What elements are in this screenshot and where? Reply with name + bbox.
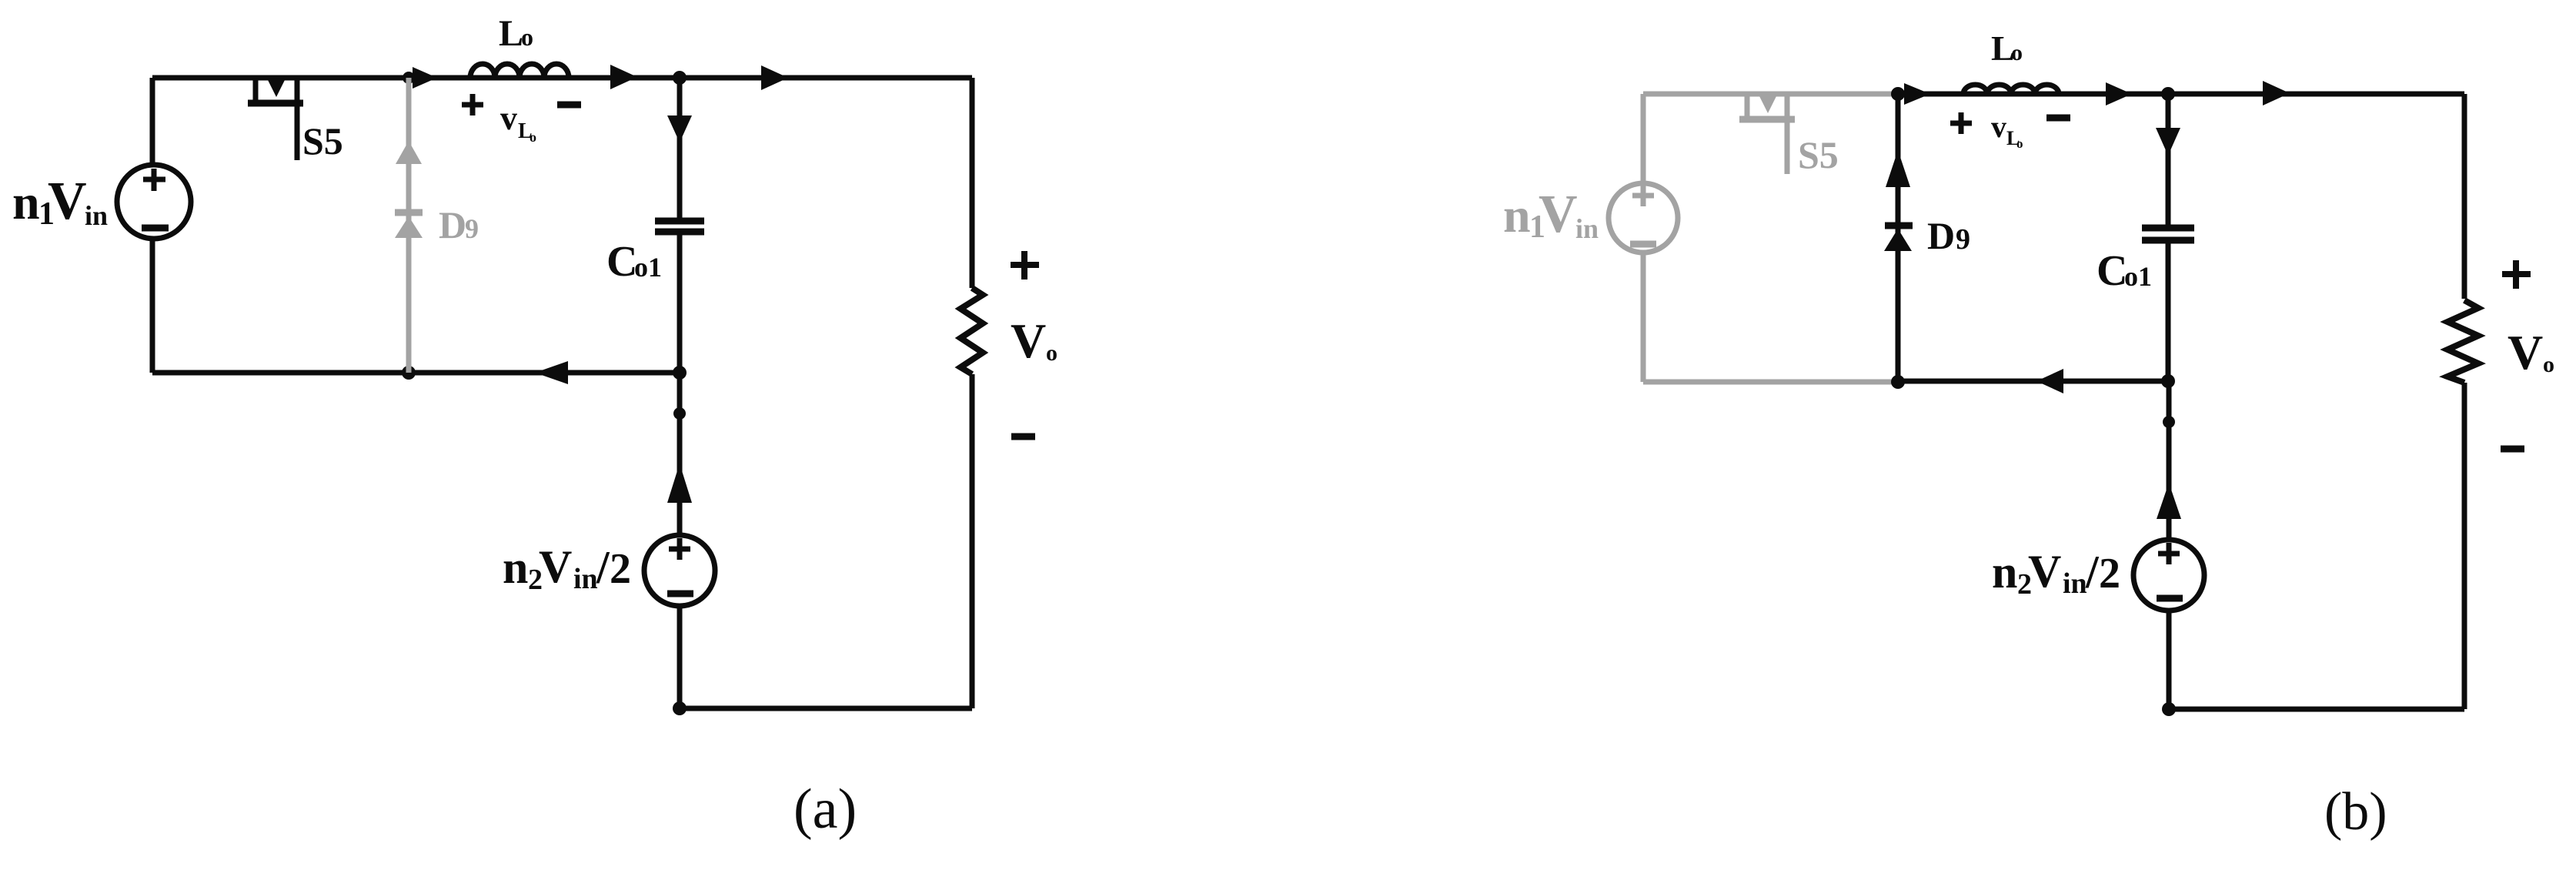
wire: bottom net black (b) bbox=[1898, 379, 2168, 384]
wire: bottom return net (a) bbox=[680, 706, 972, 711]
wire: capacitor branch upper (a) bbox=[677, 78, 683, 219]
transistor S5 arrow blob (a) bbox=[267, 79, 286, 97]
n2Vin/2 minus sign (a) bbox=[667, 591, 693, 597]
svg-text:V: V bbox=[1011, 313, 1046, 368]
inductor Lo coil (b) bbox=[1963, 85, 2059, 94]
svg-text:in: in bbox=[573, 563, 598, 595]
current arrow up through D9 (b) bbox=[1886, 150, 1910, 187]
label + of vLo (b) bbox=[1950, 112, 1972, 134]
svg-text:o1: o1 bbox=[634, 252, 662, 283]
label - of vLo (a) bbox=[557, 102, 581, 109]
current arrow left on bottom net (a) bbox=[535, 361, 568, 384]
n2Vin/2 plus sign (a) bbox=[669, 547, 690, 552]
current arrow right toward load (b) bbox=[2263, 81, 2290, 105]
svg-text:(b): (b) bbox=[2324, 782, 2387, 842]
labels (b) bbox=[1503, 28, 2554, 842]
current arrow down into capacitor branch (a) bbox=[667, 115, 692, 142]
svg-text:n: n bbox=[503, 542, 528, 593]
transistor S5 mosfet (a) bbox=[253, 78, 259, 103]
wire: right load branch upper lead (b) bbox=[2462, 94, 2467, 299]
capacitor Co1 plates (a) bbox=[655, 218, 704, 225]
junction dot bottom return (a) bbox=[673, 701, 687, 715]
current arrow right after inductor (a) bbox=[610, 65, 637, 89]
svg-text:n: n bbox=[1503, 188, 1531, 243]
label + of Vo (b) bbox=[2502, 260, 2531, 289]
svg-text:S5: S5 bbox=[1798, 133, 1839, 176]
wire: n2 source branch lower (a) bbox=[677, 605, 683, 708]
junction dot D9 bottom (a) bbox=[402, 366, 416, 380]
svg-text:o: o bbox=[530, 129, 536, 145]
wire: right load branch upper lead (a) bbox=[970, 78, 975, 288]
svg-text:o: o bbox=[2011, 40, 2023, 65]
current arrow right on top wire (b) bbox=[1904, 83, 1930, 105]
svg-text:/: / bbox=[596, 542, 610, 593]
svg-text:in: in bbox=[2063, 567, 2087, 600]
junction dot D9 top (b) bbox=[1891, 87, 1905, 101]
svg-text:o: o bbox=[1046, 340, 1057, 366]
svg-text:o: o bbox=[521, 23, 533, 51]
labels (a) bbox=[12, 13, 1057, 841]
junction dot below bottom net (b) bbox=[2163, 416, 2175, 428]
svg-text:V: V bbox=[539, 541, 572, 592]
n2Vin/2 minus sign (b) bbox=[2157, 595, 2183, 602]
junction dot at S5/D9 node (a) bbox=[403, 72, 415, 84]
n1Vin minus sign grey (b) bbox=[1630, 241, 1656, 248]
wire: top net (a) bbox=[152, 75, 972, 81]
wire: grey top net (b) bbox=[1643, 92, 1898, 97]
svg-text:n: n bbox=[12, 175, 40, 229]
label - of vLo (b) bbox=[2046, 115, 2070, 122]
wire: bottom net (a) bbox=[152, 370, 680, 376]
svg-text:v: v bbox=[500, 99, 517, 137]
svg-text:o1: o1 bbox=[2124, 261, 2152, 292]
voltage source n1Vin circle grey (b) bbox=[1609, 183, 1678, 253]
capacitor Co1 plates (b) bbox=[2142, 225, 2194, 232]
wire: right load branch lower lead (b) bbox=[2462, 383, 2467, 709]
junction dot top of capacitor branch (a) bbox=[673, 71, 687, 85]
svg-text:in: in bbox=[1575, 213, 1599, 244]
svg-text:o: o bbox=[2016, 136, 2023, 151]
svg-text:L: L bbox=[499, 13, 523, 54]
n1Vin minus sign (a) bbox=[142, 225, 169, 232]
label - of Vo (b) bbox=[2501, 446, 2524, 453]
n1Vin plus sign (a) bbox=[143, 177, 165, 182]
svg-text:9: 9 bbox=[1956, 223, 1970, 256]
wire: grey left branch below source (b) bbox=[1641, 253, 1646, 382]
resistor Vo load zigzag (b) bbox=[2447, 300, 2478, 383]
diode D9 grey (a) bbox=[395, 78, 423, 373]
current arrow right toward load (a) bbox=[761, 65, 788, 90]
transistor S5 mosfet grey (b) bbox=[1745, 94, 1750, 119]
voltage source n2Vin/2 circle (a) bbox=[644, 535, 715, 606]
svg-text:v: v bbox=[1991, 109, 2006, 144]
label - of Vo (a) bbox=[1011, 433, 1035, 440]
svg-text:V: V bbox=[2028, 546, 2061, 597]
wire: capacitor branch upper (b) bbox=[2166, 94, 2171, 225]
voltage source n2Vin/2 circle (b) bbox=[2133, 540, 2204, 611]
wire: capacitor branch lower (a) bbox=[677, 235, 683, 373]
svg-text:C: C bbox=[2097, 247, 2127, 295]
wire: left branch below source (a) bbox=[150, 238, 155, 373]
junction dot top of capacitor branch (b) bbox=[2161, 87, 2175, 101]
current arrow right on top wire after S5 (a) bbox=[413, 67, 437, 89]
svg-text:D: D bbox=[439, 203, 466, 246]
current arrow right after inductor (b) bbox=[2106, 82, 2132, 105]
svg-text:V: V bbox=[48, 172, 87, 231]
svg-text:2: 2 bbox=[2099, 550, 2120, 597]
wire: grey bottom net (b) bbox=[1643, 380, 1898, 385]
svg-text:9: 9 bbox=[465, 213, 479, 244]
wire: top net black (b) bbox=[1898, 92, 2464, 97]
svg-text:V: V bbox=[1539, 185, 1578, 244]
junction dot capacitor bottom (a) bbox=[673, 366, 687, 380]
label + of Vo (a) bbox=[1011, 251, 1039, 280]
inductor Lo coil (a) bbox=[470, 64, 569, 78]
svg-text:2: 2 bbox=[610, 545, 631, 593]
svg-text:S5: S5 bbox=[302, 119, 343, 162]
svg-text:n: n bbox=[1992, 547, 2017, 597]
diode D9 branch wire (b) bbox=[1896, 94, 1901, 382]
svg-text:(a): (a) bbox=[794, 778, 857, 841]
n1Vin plus sign grey (b) bbox=[1632, 193, 1654, 199]
svg-text:/: / bbox=[2085, 547, 2100, 597]
junction dot below bottom net (a) bbox=[673, 407, 686, 420]
junction dot D9 bottom (b) bbox=[1891, 375, 1905, 389]
resistor Vo load zigzag (a) bbox=[961, 288, 983, 374]
diode D9 cathode bar (b) bbox=[1885, 223, 1913, 229]
wire: n2 source branch upper (a) bbox=[677, 373, 683, 536]
svg-text:D: D bbox=[1927, 214, 1955, 257]
label + of vLo (a) bbox=[462, 94, 483, 115]
svg-text:C: C bbox=[606, 238, 637, 286]
wire: left branch above source (a) bbox=[150, 78, 155, 166]
wire: n2 source branch upper (b) bbox=[2167, 381, 2172, 541]
wire: capacitor branch lower (b) bbox=[2166, 243, 2171, 381]
junction dot capacitor bottom (b) bbox=[2161, 374, 2175, 388]
wire: n2 source branch lower (b) bbox=[2167, 610, 2172, 709]
grey inactive input loop (b) bbox=[1609, 94, 1898, 382]
current arrow down into capacitor branch (b) bbox=[2156, 128, 2180, 156]
voltage source n1Vin circle (a) bbox=[117, 165, 191, 239]
current arrow left on bottom net (b) bbox=[2036, 369, 2063, 393]
svg-text:o: o bbox=[2543, 352, 2554, 377]
svg-text:in: in bbox=[85, 200, 108, 231]
svg-text:V: V bbox=[2508, 325, 2543, 380]
diode D9 anode triangle (b) bbox=[1884, 229, 1912, 251]
current arrow up from n2 source (a) bbox=[667, 464, 692, 503]
wire: grey left branch above source (b) bbox=[1641, 94, 1646, 184]
current arrow up from n2 source (b) bbox=[2157, 483, 2181, 519]
junction dot bottom return (b) bbox=[2162, 702, 2176, 716]
n2Vin/2 plus sign (b) bbox=[2158, 551, 2180, 557]
wire: bottom return net (b) bbox=[2169, 707, 2464, 712]
transistor S5 arrow blob grey (b) bbox=[1759, 95, 1777, 113]
wire: right load branch lower lead (a) bbox=[970, 374, 975, 708]
